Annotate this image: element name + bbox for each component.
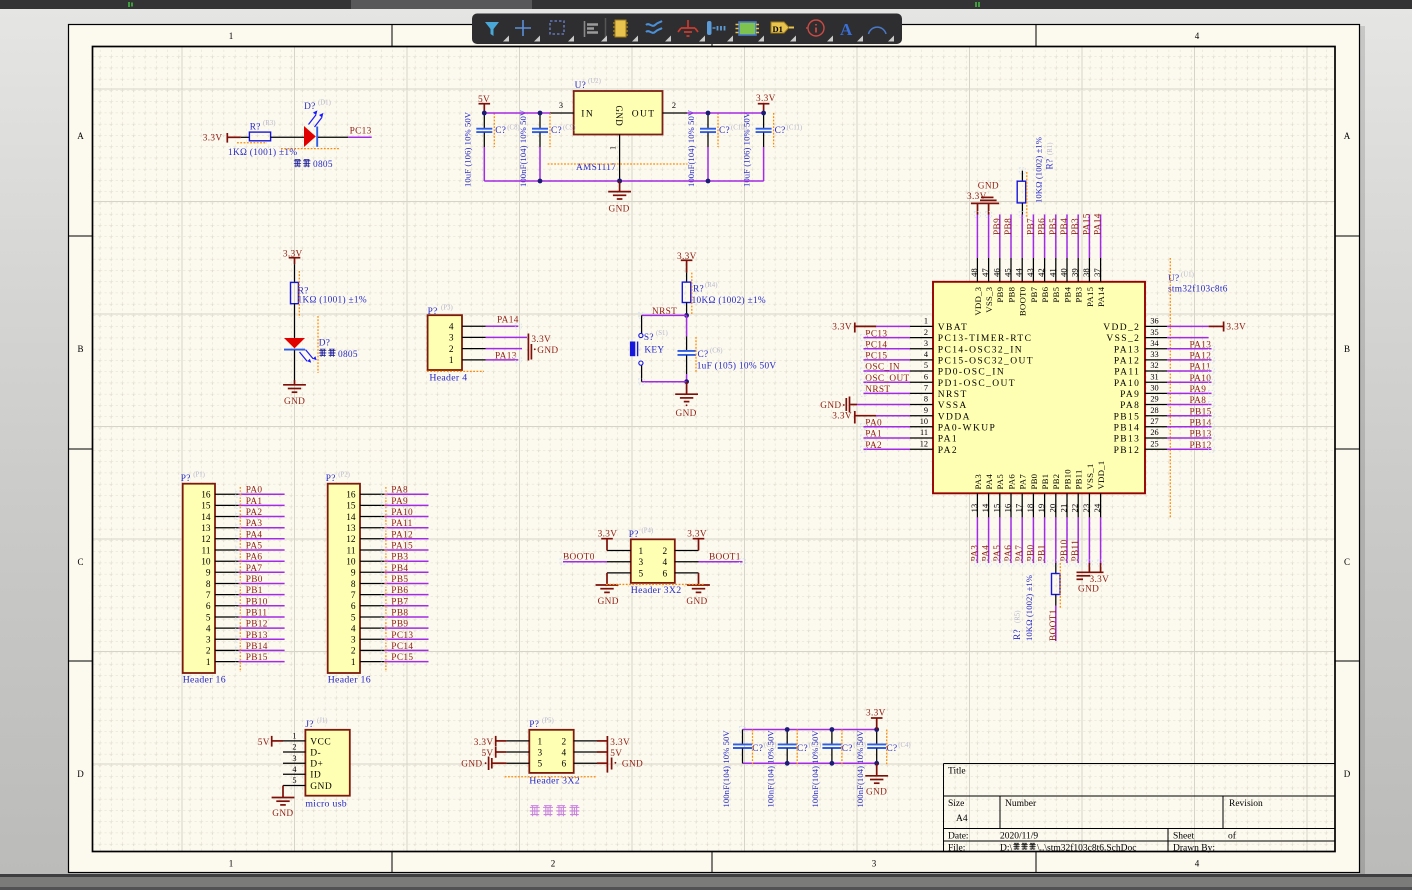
- svg-text:Header 16: Header 16: [328, 675, 371, 686]
- svg-text:13: 13: [201, 524, 211, 534]
- svg-text:0805: 0805: [338, 350, 358, 360]
- svg-text:3.3V: 3.3V: [832, 412, 852, 422]
- svg-text:PC14-OSC32_IN: PC14-OSC32_IN: [938, 345, 1023, 355]
- svg-text:PA0-WKUP: PA0-WKUP: [938, 423, 996, 433]
- svg-text:PA4: PA4: [984, 474, 994, 490]
- svg-text:PB13: PB13: [246, 631, 268, 641]
- svg-text:GND: GND: [598, 597, 619, 607]
- svg-text:PB8: PB8: [391, 609, 408, 619]
- svg-text:GND: GND: [686, 597, 707, 607]
- svg-text:VDD_3: VDD_3: [973, 286, 983, 315]
- svg-text:2: 2: [206, 647, 211, 657]
- svg-text:(C9): (C9): [563, 125, 575, 132]
- svg-text:PB5: PB5: [1049, 218, 1059, 235]
- svg-text:11: 11: [920, 428, 928, 437]
- svg-text:PA12: PA12: [1190, 352, 1212, 362]
- svg-text:GND: GND: [609, 205, 630, 215]
- svg-text:15: 15: [201, 502, 211, 512]
- svg-text:13: 13: [969, 503, 979, 512]
- svg-text:C?: C?: [698, 350, 709, 360]
- svg-text:VSS_2: VSS_2: [1106, 334, 1140, 344]
- svg-text:3.3V: 3.3V: [531, 335, 551, 345]
- svg-text:36: 36: [1150, 317, 1158, 326]
- svg-text:5V: 5V: [258, 738, 270, 748]
- svg-text:10KΩ (1002) ±1%: 10KΩ (1002) ±1%: [1024, 575, 1034, 641]
- svg-text:3.3V: 3.3V: [1090, 575, 1110, 585]
- svg-text:GND: GND: [537, 346, 558, 356]
- svg-text:2: 2: [924, 328, 928, 337]
- svg-text:PB12: PB12: [246, 620, 268, 630]
- svg-text:1KΩ (1001) ±1%: 1KΩ (1001) ±1%: [298, 294, 367, 305]
- svg-text:Sheet: Sheet: [1173, 832, 1194, 842]
- svg-text:PB1: PB1: [1040, 474, 1050, 490]
- svg-text:8: 8: [206, 580, 211, 590]
- svg-text:PA2: PA2: [865, 441, 882, 451]
- svg-text:PB8: PB8: [1006, 286, 1016, 302]
- svg-text:(R3): (R3): [263, 120, 275, 127]
- svg-text:D1: D1: [773, 24, 783, 34]
- svg-text:2: 2: [292, 743, 296, 752]
- svg-text:10KΩ (1002) ±1%: 10KΩ (1002) ±1%: [692, 295, 766, 306]
- svg-text:D?: D?: [304, 102, 315, 112]
- svg-text:20: 20: [1047, 503, 1057, 512]
- svg-text:PB8: PB8: [1004, 218, 1014, 235]
- svg-text:PB1: PB1: [1038, 544, 1048, 561]
- svg-text:(C6): (C6): [710, 347, 722, 354]
- svg-text:2: 2: [551, 859, 556, 869]
- svg-text:PA13: PA13: [1114, 345, 1140, 355]
- svg-text:35: 35: [1150, 328, 1158, 337]
- svg-text:1: 1: [351, 658, 356, 668]
- svg-text:PA15: PA15: [1082, 213, 1092, 235]
- svg-text:PC13: PC13: [865, 329, 887, 339]
- svg-text:PA5: PA5: [993, 545, 1003, 562]
- svg-text:PA15: PA15: [391, 542, 413, 552]
- svg-text:(P2): (P2): [338, 472, 350, 479]
- svg-text:PB10: PB10: [1060, 539, 1070, 561]
- svg-text:PB14: PB14: [1114, 423, 1141, 433]
- svg-text:NRST: NRST: [865, 385, 890, 395]
- svg-text:Title: Title: [948, 767, 966, 777]
- svg-text:GND: GND: [622, 760, 643, 770]
- svg-text:PA12: PA12: [1114, 357, 1140, 367]
- svg-text:P?: P?: [629, 530, 639, 540]
- svg-text:PA6: PA6: [246, 553, 263, 563]
- svg-text:B: B: [77, 344, 83, 354]
- svg-text:10: 10: [201, 558, 211, 568]
- svg-text:15: 15: [991, 503, 1001, 512]
- svg-text:(R1): (R1): [1047, 143, 1054, 155]
- svg-text:13: 13: [346, 524, 356, 534]
- svg-text:A: A: [840, 20, 853, 39]
- svg-text:NRST: NRST: [938, 390, 968, 400]
- svg-text:ID: ID: [310, 771, 321, 781]
- svg-text:4: 4: [351, 624, 356, 634]
- svg-text:(P4): (P4): [642, 527, 654, 534]
- svg-text:VCC: VCC: [310, 737, 331, 747]
- svg-text:VSS_3: VSS_3: [984, 286, 994, 312]
- svg-text:1: 1: [924, 317, 928, 326]
- svg-text:D:\: D:\: [1000, 844, 1013, 854]
- svg-text:31: 31: [1150, 372, 1158, 381]
- svg-text:41: 41: [1047, 268, 1057, 277]
- svg-text:PB0: PB0: [1029, 473, 1039, 489]
- svg-text:(P3): (P3): [441, 304, 453, 311]
- svg-text:of: of: [1228, 831, 1237, 842]
- svg-text:7: 7: [206, 591, 211, 601]
- svg-text:PA10: PA10: [391, 508, 413, 518]
- svg-text:S?: S?: [644, 333, 654, 343]
- svg-text:44: 44: [1014, 268, 1024, 277]
- svg-text:30: 30: [1150, 384, 1158, 393]
- svg-text:(R4): (R4): [705, 282, 717, 289]
- svg-text:14: 14: [980, 503, 990, 512]
- svg-text:(U1): (U1): [1181, 272, 1194, 279]
- svg-text:PB3: PB3: [391, 553, 408, 563]
- svg-text:4: 4: [1195, 31, 1200, 41]
- svg-text:C?: C?: [775, 126, 786, 136]
- svg-text:3: 3: [449, 334, 454, 344]
- svg-text:100nF(104) 10% 50V: 100nF(104) 10% 50V: [686, 109, 696, 187]
- svg-text:8: 8: [924, 395, 928, 404]
- svg-text:100nF(104) 10% 50V: 100nF(104) 10% 50V: [855, 730, 865, 808]
- svg-text:17: 17: [1014, 503, 1024, 512]
- svg-text:3: 3: [639, 558, 644, 568]
- svg-text:C: C: [1344, 557, 1350, 567]
- svg-text:45: 45: [1003, 268, 1013, 277]
- svg-text:PA1: PA1: [865, 430, 882, 440]
- svg-text:Number: Number: [1005, 799, 1037, 809]
- svg-text:16: 16: [346, 491, 356, 501]
- svg-text:VSSA: VSSA: [938, 401, 968, 411]
- svg-text:PB4: PB4: [1062, 286, 1072, 302]
- svg-text:1KΩ (1001) ±1%: 1KΩ (1001) ±1%: [228, 147, 297, 158]
- svg-text:PB3: PB3: [1074, 286, 1084, 302]
- svg-text:6: 6: [206, 602, 211, 612]
- svg-text:PA9: PA9: [1120, 390, 1140, 400]
- svg-text:PA7: PA7: [246, 564, 263, 574]
- svg-text:PA5: PA5: [246, 542, 263, 552]
- svg-text:C?: C?: [797, 744, 808, 754]
- svg-text:A: A: [77, 131, 84, 141]
- svg-text:PB6: PB6: [391, 586, 408, 596]
- svg-text:1: 1: [639, 547, 644, 557]
- svg-text:PA2: PA2: [938, 446, 958, 456]
- svg-text:PB15: PB15: [246, 653, 268, 663]
- svg-text:PA15: PA15: [1085, 286, 1095, 306]
- svg-text:NRST: NRST: [652, 307, 677, 317]
- svg-text:3: 3: [206, 636, 211, 646]
- svg-text:2: 2: [351, 647, 356, 657]
- svg-text:1: 1: [229, 31, 234, 41]
- svg-text:GND: GND: [866, 787, 887, 797]
- svg-text:PA8: PA8: [1190, 396, 1207, 406]
- svg-text:VDD_1: VDD_1: [1096, 461, 1106, 490]
- svg-text:32: 32: [1150, 361, 1158, 370]
- svg-text:1: 1: [292, 732, 296, 741]
- svg-text:R?: R?: [250, 122, 261, 132]
- svg-text:D?: D?: [319, 339, 330, 349]
- svg-text:PB7: PB7: [1026, 218, 1036, 235]
- svg-text:3: 3: [559, 101, 563, 110]
- svg-text:10: 10: [346, 558, 356, 568]
- svg-text:PC15: PC15: [391, 653, 413, 663]
- svg-text:PB15: PB15: [1114, 412, 1141, 422]
- svg-text:Header 3X2: Header 3X2: [631, 585, 682, 596]
- svg-text:Size: Size: [948, 799, 964, 809]
- svg-text:GND: GND: [820, 401, 841, 411]
- svg-text:PB3: PB3: [1071, 218, 1081, 235]
- svg-text:33: 33: [1150, 350, 1158, 359]
- svg-text:PA11: PA11: [1190, 363, 1211, 373]
- svg-text:C?: C?: [495, 126, 506, 136]
- svg-text:7: 7: [351, 591, 356, 601]
- svg-text:PB9: PB9: [391, 620, 408, 630]
- svg-text:12: 12: [201, 535, 211, 545]
- svg-text:12: 12: [346, 535, 356, 545]
- svg-text:PA0: PA0: [865, 419, 882, 429]
- svg-text:5: 5: [206, 613, 211, 623]
- svg-text:10uF (106) 10% 50V: 10uF (106) 10% 50V: [462, 111, 472, 187]
- svg-text:5V: 5V: [481, 749, 493, 759]
- svg-text:1: 1: [609, 146, 618, 150]
- svg-text:(C11): (C11): [787, 125, 803, 132]
- svg-text:PA1: PA1: [938, 435, 958, 445]
- svg-text:C?: C?: [719, 126, 730, 136]
- svg-text:BOOT1: BOOT1: [1049, 609, 1059, 641]
- svg-text:PB14: PB14: [246, 642, 268, 652]
- svg-text:PB13: PB13: [1114, 435, 1141, 445]
- svg-text:PC14: PC14: [391, 642, 413, 652]
- svg-text:GND: GND: [1078, 585, 1099, 595]
- svg-text:12: 12: [920, 439, 928, 448]
- svg-text:PA4: PA4: [982, 545, 992, 562]
- svg-text:16: 16: [1003, 503, 1013, 512]
- svg-text:5: 5: [924, 361, 928, 370]
- svg-text:6: 6: [924, 372, 928, 381]
- svg-text:25: 25: [1150, 439, 1158, 448]
- svg-text:Date:: Date:: [948, 832, 969, 842]
- svg-text:PB6: PB6: [1038, 218, 1048, 235]
- svg-text:D-: D-: [310, 748, 321, 758]
- svg-text:R?: R?: [693, 285, 704, 295]
- svg-text:14: 14: [201, 513, 211, 523]
- svg-text:PA3: PA3: [973, 474, 983, 490]
- svg-text:VDDA: VDDA: [938, 412, 971, 422]
- svg-text:3.3V: 3.3V: [756, 94, 776, 104]
- svg-text:37: 37: [1092, 268, 1102, 277]
- svg-text:34: 34: [1150, 339, 1159, 348]
- svg-text:2: 2: [562, 737, 567, 747]
- svg-text:PA9: PA9: [391, 497, 408, 507]
- svg-text:11: 11: [347, 546, 356, 556]
- svg-text:PA13: PA13: [495, 351, 517, 361]
- svg-text:28: 28: [1150, 406, 1158, 415]
- svg-text:26: 26: [1150, 428, 1158, 437]
- svg-text:3.3V: 3.3V: [832, 323, 852, 333]
- svg-text:File:: File:: [948, 844, 965, 854]
- svg-text:24: 24: [1092, 503, 1102, 512]
- svg-text:11: 11: [202, 546, 211, 556]
- svg-text:(S1): (S1): [656, 330, 668, 337]
- svg-text:PA10: PA10: [1114, 379, 1140, 389]
- svg-text:10KΩ (1002) ±1%: 10KΩ (1002) ±1%: [1034, 137, 1044, 203]
- svg-text:4: 4: [1195, 859, 1200, 869]
- svg-text:C?: C?: [752, 744, 763, 754]
- svg-text:A4: A4: [956, 814, 968, 824]
- svg-text:C: C: [77, 557, 83, 567]
- svg-text:43: 43: [1025, 268, 1035, 277]
- svg-text:PA1: PA1: [246, 497, 263, 507]
- svg-text:27: 27: [1150, 417, 1158, 426]
- svg-text:39: 39: [1070, 268, 1080, 277]
- svg-text:PA6: PA6: [1004, 545, 1014, 562]
- svg-text:10uF (106) 10% 50V: 10uF (106) 10% 50V: [742, 111, 752, 187]
- svg-text:46: 46: [991, 268, 1001, 277]
- svg-text:3.3V: 3.3V: [203, 133, 223, 143]
- svg-text:100nF(104) 10% 50V: 100nF(104) 10% 50V: [766, 730, 776, 808]
- svg-text:(J1): (J1): [317, 717, 328, 724]
- svg-text:PB5: PB5: [1051, 286, 1061, 302]
- svg-text:40: 40: [1059, 268, 1069, 277]
- svg-text:(C4): (C4): [898, 742, 910, 749]
- svg-text:GND: GND: [310, 782, 332, 792]
- svg-text:PA6: PA6: [1006, 474, 1016, 490]
- svg-text:(D1): (D1): [318, 99, 331, 106]
- svg-text:GND: GND: [676, 409, 697, 419]
- svg-text:VSS_1: VSS_1: [1085, 464, 1095, 490]
- svg-text:PB12: PB12: [1114, 446, 1141, 456]
- svg-text:3: 3: [538, 748, 543, 758]
- svg-text:5V: 5V: [610, 749, 622, 759]
- svg-text:PB10: PB10: [1062, 469, 1072, 490]
- svg-text:2: 2: [663, 547, 668, 557]
- svg-text:PA14: PA14: [1094, 213, 1104, 235]
- svg-text:16: 16: [201, 491, 211, 501]
- svg-text:GND: GND: [978, 182, 999, 192]
- svg-text:48: 48: [969, 268, 979, 277]
- svg-text:BOOT0: BOOT0: [1018, 286, 1028, 316]
- svg-text:PA14: PA14: [1096, 286, 1106, 306]
- svg-text:22: 22: [1070, 504, 1080, 513]
- svg-text:4: 4: [206, 624, 211, 634]
- svg-text:100nF(104) 10% 50V: 100nF(104) 10% 50V: [721, 730, 731, 808]
- svg-text:PA8: PA8: [391, 486, 408, 496]
- svg-text:2020/11/9: 2020/11/9: [1000, 832, 1038, 842]
- svg-text:2: 2: [672, 101, 676, 110]
- svg-text:3: 3: [292, 754, 296, 763]
- svg-text:PB2: PB2: [1051, 474, 1061, 490]
- svg-text:5: 5: [639, 569, 644, 579]
- svg-text:14: 14: [346, 513, 356, 523]
- svg-text:Revision: Revision: [1229, 799, 1263, 809]
- svg-text:PB1: PB1: [246, 586, 263, 596]
- svg-text:OSC_OUT: OSC_OUT: [865, 374, 909, 384]
- svg-text:PA0: PA0: [246, 486, 263, 496]
- svg-text:PB11: PB11: [246, 609, 268, 619]
- svg-text:100nF(104) 10% 50V: 100nF(104) 10% 50V: [518, 109, 528, 187]
- svg-text:9: 9: [206, 569, 211, 579]
- svg-text:7: 7: [924, 384, 928, 393]
- svg-text:micro usb: micro usb: [305, 798, 347, 809]
- svg-text:1: 1: [449, 356, 454, 366]
- svg-text:stm32f103c8t6: stm32f103c8t6: [1168, 284, 1228, 295]
- svg-text:9: 9: [924, 406, 928, 415]
- svg-text:3.3V: 3.3V: [474, 738, 494, 748]
- svg-text:PC15: PC15: [865, 352, 887, 362]
- svg-text:1: 1: [229, 859, 234, 869]
- svg-text:PA7: PA7: [1015, 545, 1025, 562]
- svg-text:PC15-OSC32_OUT: PC15-OSC32_OUT: [938, 357, 1034, 367]
- svg-text:PA9: PA9: [1190, 385, 1207, 395]
- svg-text:42: 42: [1036, 268, 1046, 277]
- svg-text:9: 9: [351, 569, 356, 579]
- svg-text:38: 38: [1081, 268, 1091, 277]
- svg-text:OSC_IN: OSC_IN: [865, 363, 900, 373]
- svg-text:PC13: PC13: [350, 127, 372, 137]
- svg-text:19: 19: [1036, 503, 1046, 512]
- svg-text:1: 1: [538, 737, 543, 747]
- svg-text:6: 6: [351, 602, 356, 612]
- svg-text:PC13-TIMER-RTC: PC13-TIMER-RTC: [938, 334, 1033, 344]
- svg-text:U?: U?: [575, 81, 586, 91]
- svg-text:R?: R?: [1046, 159, 1056, 170]
- svg-text:21: 21: [1059, 504, 1069, 513]
- svg-text:29: 29: [1150, 395, 1158, 404]
- svg-text:8: 8: [351, 580, 356, 590]
- svg-text:5: 5: [351, 613, 356, 623]
- svg-text:PB0: PB0: [1026, 544, 1036, 561]
- svg-text:C?: C?: [887, 744, 898, 754]
- svg-text:PA2: PA2: [246, 508, 263, 518]
- svg-text:\..\stm32f103c8t6.SchDoc: \..\stm32f103c8t6.SchDoc: [1037, 843, 1136, 854]
- svg-text:1uF (105) 10% 50V: 1uF (105) 10% 50V: [697, 360, 777, 371]
- svg-text:3.3V: 3.3V: [1226, 323, 1246, 333]
- svg-text:(P5): (P5): [542, 717, 554, 724]
- svg-text:3: 3: [351, 636, 356, 646]
- svg-text:PB10: PB10: [246, 597, 268, 607]
- svg-text:PA3: PA3: [246, 519, 263, 529]
- svg-text:PA13: PA13: [1190, 340, 1212, 350]
- svg-text:Header 4: Header 4: [429, 373, 467, 384]
- svg-text:GND: GND: [614, 106, 624, 127]
- svg-text:C?: C?: [842, 744, 853, 754]
- svg-text:PA11: PA11: [1114, 368, 1140, 378]
- svg-text:VDD_2: VDD_2: [1103, 323, 1140, 333]
- svg-text:(P1): (P1): [193, 472, 205, 479]
- svg-text:4: 4: [449, 323, 454, 333]
- svg-text:GND: GND: [461, 760, 482, 770]
- svg-text:VBAT: VBAT: [938, 323, 968, 333]
- svg-text:PB11: PB11: [1074, 469, 1084, 489]
- svg-text:PA5: PA5: [995, 474, 1005, 490]
- svg-text:1: 1: [206, 658, 211, 668]
- svg-text:4: 4: [663, 558, 668, 568]
- svg-text:(U2): (U2): [588, 78, 601, 85]
- svg-text:2: 2: [449, 345, 454, 355]
- svg-text:D: D: [1344, 769, 1351, 779]
- svg-text:PB7: PB7: [1029, 286, 1039, 302]
- svg-text:100nF(104) 10% 50V: 100nF(104) 10% 50V: [810, 730, 820, 808]
- svg-text:PA11: PA11: [391, 519, 412, 529]
- svg-text:KEY: KEY: [644, 346, 664, 356]
- svg-text:3: 3: [924, 339, 928, 348]
- svg-text:PB4: PB4: [391, 564, 408, 574]
- svg-text:PA12: PA12: [391, 530, 413, 540]
- svg-text:23: 23: [1081, 503, 1091, 512]
- svg-text:PA4: PA4: [246, 530, 263, 540]
- svg-text:PB9: PB9: [993, 218, 1003, 235]
